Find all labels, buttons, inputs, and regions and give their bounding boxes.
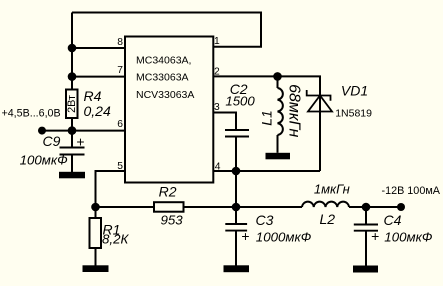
svg-text:R4: R4 bbox=[84, 88, 102, 104]
svg-text:-12В 100мА: -12В 100мА bbox=[382, 185, 441, 197]
svg-text:VD1: VD1 bbox=[341, 83, 368, 99]
svg-text:1: 1 bbox=[214, 36, 220, 47]
svg-text:5: 5 bbox=[117, 161, 123, 172]
svg-text:+: + bbox=[76, 134, 84, 150]
svg-text:1500: 1500 bbox=[225, 94, 255, 109]
svg-text:L1: L1 bbox=[259, 110, 275, 126]
svg-text:C4: C4 bbox=[384, 212, 402, 228]
svg-text:MC34063A,: MC34063A, bbox=[136, 55, 191, 67]
svg-text:0,24: 0,24 bbox=[84, 103, 111, 119]
svg-text:3: 3 bbox=[214, 102, 220, 113]
svg-text:L2: L2 bbox=[320, 211, 336, 227]
svg-text:68мкГн: 68мкГн bbox=[286, 84, 303, 137]
svg-text:4: 4 bbox=[215, 161, 221, 172]
svg-text:1мкГн: 1мкГн bbox=[314, 182, 350, 197]
svg-text:100мкФ: 100мкФ bbox=[20, 153, 69, 168]
svg-text:C3: C3 bbox=[256, 212, 274, 228]
svg-text:2Вт: 2Вт bbox=[66, 95, 78, 113]
svg-text:R2: R2 bbox=[159, 184, 177, 200]
svg-text:1000мкФ: 1000мкФ bbox=[256, 230, 312, 245]
svg-text:MC33063A: MC33063A bbox=[136, 72, 189, 84]
svg-text:8: 8 bbox=[117, 37, 123, 48]
svg-text:6: 6 bbox=[117, 119, 123, 130]
svg-text:+: + bbox=[241, 228, 249, 244]
svg-text:NCV33063A: NCV33063A bbox=[136, 89, 194, 101]
svg-text:953: 953 bbox=[161, 213, 184, 228]
svg-text:100мкФ: 100мкФ bbox=[384, 230, 433, 245]
svg-text:+4,5В...6,0В: +4,5В...6,0В bbox=[2, 107, 61, 119]
svg-text:C9: C9 bbox=[43, 133, 61, 149]
svg-text:+: + bbox=[371, 228, 379, 244]
svg-text:2: 2 bbox=[214, 66, 220, 77]
svg-text:8,2К: 8,2К bbox=[102, 232, 129, 247]
svg-text:7: 7 bbox=[117, 65, 123, 76]
svg-text:1N5819: 1N5819 bbox=[335, 108, 372, 120]
